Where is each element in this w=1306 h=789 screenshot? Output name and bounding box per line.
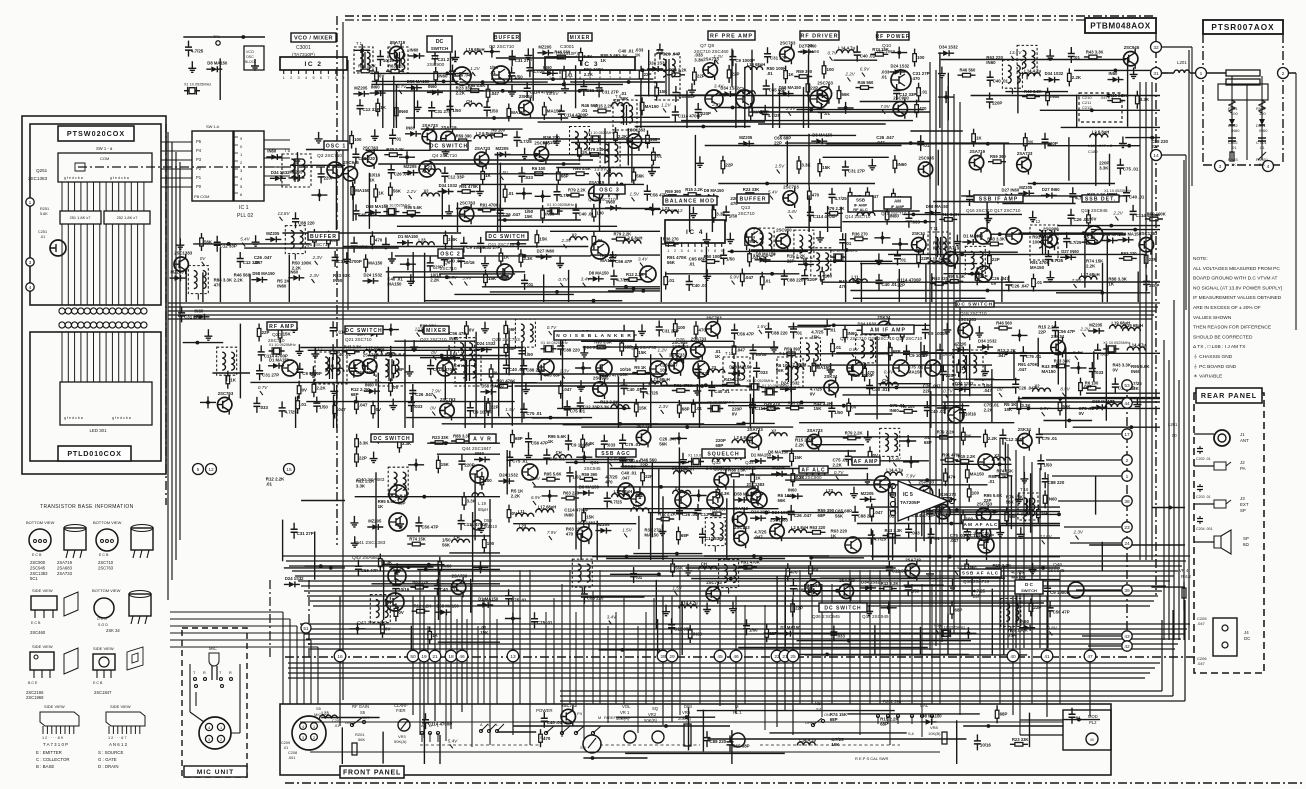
- svg-text:IC 3: IC 3: [581, 61, 599, 68]
- svg-text:2.2K: 2.2K: [833, 462, 843, 467]
- svg-text:22P: 22P: [262, 330, 270, 335]
- svg-text:1K: 1K: [976, 135, 982, 140]
- svg-text:50: 50: [410, 654, 416, 660]
- svg-text:1: 1: [1200, 71, 1203, 77]
- svg-text:.047: .047: [983, 388, 992, 393]
- svg-text:3: 3: [29, 260, 32, 266]
- svg-text:.01: .01: [923, 143, 930, 148]
- svg-text:1.5V: 1.5V: [499, 170, 509, 175]
- svg-text:3.3K: 3.3K: [585, 441, 595, 446]
- svg-text:100: 100: [1231, 111, 1238, 116]
- svg-text:4: 4: [302, 725, 304, 729]
- svg-text:C88 220: C88 220: [587, 596, 604, 601]
- svg-text:10/16: 10/16: [965, 411, 977, 416]
- svg-text:2SA719: 2SA719: [905, 557, 921, 562]
- svg-text:Q3 2SC710: Q3 2SC710: [317, 153, 342, 159]
- svg-text:470: 470: [790, 570, 798, 575]
- svg-text:1/50: 1/50: [834, 410, 843, 415]
- svg-text:220P: 220P: [1048, 141, 1058, 146]
- svg-text:R43 3.3K: R43 3.3K: [987, 236, 1005, 241]
- svg-text:8: 8: [619, 76, 621, 80]
- svg-text:X1 10.0525MHz: X1 10.0525MHz: [269, 343, 296, 347]
- svg-text:.047: .047: [254, 260, 263, 265]
- svg-text:C12 33P: C12 33P: [583, 405, 600, 410]
- svg-text:1K: 1K: [715, 354, 721, 359]
- svg-text:R63 220: R63 220: [932, 276, 949, 281]
- svg-text:0V: 0V: [1091, 216, 1096, 221]
- svg-text:C12 33P: C12 33P: [674, 626, 691, 631]
- svg-text:15K: 15K: [822, 165, 831, 170]
- svg-text:2SA733: 2SA733: [669, 352, 685, 357]
- svg-text:C31 27P: C31 27P: [770, 55, 787, 60]
- svg-text:470: 470: [948, 475, 956, 480]
- svg-text:22P: 22P: [644, 72, 652, 77]
- svg-text:D8 MA150: D8 MA150: [756, 251, 777, 256]
- svg-text:RF DRIVER: RF DRIVER: [800, 33, 838, 39]
- svg-text:44: 44: [1124, 401, 1130, 407]
- svg-text:L14 4.7μ: L14 4.7μ: [681, 600, 698, 605]
- svg-text:L19 68μH: L19 68μH: [466, 47, 485, 52]
- svg-text:C75 .01: C75 .01: [1123, 167, 1139, 172]
- svg-text:PTLD010COX: PTLD010COX: [67, 449, 121, 458]
- svg-text:2SK34: 2SK34: [1018, 427, 1032, 432]
- svg-text:22P: 22P: [769, 631, 777, 636]
- svg-text:1.5V: 1.5V: [672, 585, 682, 590]
- svg-text:D : DRAIN: D : DRAIN: [98, 764, 119, 769]
- svg-text:IN60: IN60: [1231, 128, 1240, 133]
- svg-text:.01: .01: [1259, 145, 1265, 150]
- svg-text:M: M: [735, 704, 739, 709]
- svg-text:Q2 2SC710: Q2 2SC710: [489, 44, 514, 50]
- svg-text:C31 27P: C31 27P: [297, 531, 314, 536]
- svg-text:220P: 220P: [992, 101, 1002, 106]
- svg-text:DC SWITCH: DC SWITCH: [430, 143, 468, 149]
- svg-text:2SC900: 2SC900: [893, 95, 909, 100]
- svg-text:.047: .047: [563, 387, 572, 392]
- svg-text:AM IF AMP: AM IF AMP: [870, 327, 906, 333]
- svg-text:SHOULD BE CORRECTED: SHOULD BE CORRECTED: [1193, 334, 1253, 340]
- svg-text:D24 1S32: D24 1S32: [285, 576, 304, 581]
- svg-text:1: 1: [283, 76, 285, 80]
- svg-text:IN60: IN60: [406, 125, 416, 130]
- svg-text:IN60: IN60: [365, 383, 375, 388]
- svg-text:T 2: T 2: [390, 41, 397, 46]
- svg-text:Q21 2SC710: Q21 2SC710: [345, 337, 372, 342]
- svg-text:C208: C208: [288, 751, 297, 755]
- svg-text:.01: .01: [527, 282, 534, 287]
- svg-text:2SC763: 2SC763: [780, 41, 796, 46]
- svg-text:IN60: IN60: [449, 336, 459, 341]
- svg-text:2SC1383: 2SC1383: [1139, 231, 1158, 236]
- svg-text:L23: L23: [1107, 399, 1115, 404]
- svg-text:L14 4.7μ: L14 4.7μ: [1129, 343, 1146, 348]
- svg-text:T 5: T 5: [657, 48, 664, 53]
- svg-text:C12 33P: C12 33P: [1005, 437, 1022, 442]
- svg-text:0V: 0V: [469, 328, 474, 333]
- svg-text:R63 220: R63 220: [788, 401, 805, 406]
- svg-text:.01: .01: [824, 111, 831, 116]
- svg-text:2SC900: 2SC900: [30, 560, 46, 565]
- svg-text:Q42 2SA683: Q42 2SA683: [352, 555, 380, 561]
- svg-text:22P: 22P: [359, 456, 367, 461]
- svg-text:3.3K: 3.3K: [1099, 166, 1109, 171]
- svg-text:10/16: 10/16: [398, 587, 410, 592]
- svg-text:R: R: [203, 671, 206, 675]
- svg-text:220P: 220P: [324, 175, 334, 180]
- svg-text:1/50: 1/50: [524, 352, 533, 357]
- svg-text:1/50: 1/50: [729, 214, 738, 219]
- svg-text:L: L: [437, 724, 439, 728]
- svg-text:Q16 2SC710 Q17 2SC710: Q16 2SC710 Q17 2SC710: [966, 208, 1021, 213]
- svg-text:2SC1969: 2SC1969: [26, 695, 44, 700]
- svg-text:1/50: 1/50: [514, 74, 523, 79]
- svg-text:OSC 1: OSC 1: [326, 143, 347, 149]
- svg-text:8.9V: 8.9V: [448, 275, 458, 280]
- svg-text:3.4V: 3.4V: [787, 209, 797, 214]
- svg-text:.01: .01: [689, 261, 696, 266]
- svg-text:2SA733: 2SA733: [452, 574, 468, 579]
- svg-text:RF ALC: RF ALC: [853, 207, 868, 212]
- svg-text:C31 27P: C31 27P: [438, 57, 455, 62]
- svg-text:C203 .01: C203 .01: [1196, 495, 1211, 499]
- svg-text:R12 2.2K: R12 2.2K: [414, 604, 432, 609]
- svg-text:2SC763: 2SC763: [783, 185, 799, 190]
- svg-text:100: 100: [354, 137, 362, 142]
- svg-text:2SC763: 2SC763: [706, 315, 722, 320]
- svg-text:100: 100: [825, 273, 833, 278]
- svg-text:g f e d c b a: g f e d c b a: [64, 176, 83, 180]
- svg-text:470: 470: [605, 479, 613, 484]
- svg-text:L14 4.7μ: L14 4.7μ: [838, 45, 855, 50]
- svg-text:C9 1000P: C9 1000P: [473, 409, 493, 414]
- svg-text:7.9V: 7.9V: [1072, 278, 1082, 283]
- svg-text:Q40 2SA683: Q40 2SA683: [357, 477, 385, 483]
- svg-text:PB COM: PB COM: [194, 194, 209, 199]
- svg-text:J4: J4: [1244, 630, 1249, 635]
- svg-text:.01: .01: [300, 402, 307, 407]
- svg-text:DC SWITCH: DC SWITCH: [957, 302, 993, 308]
- svg-text:.047: .047: [359, 403, 368, 408]
- svg-text:BUFFER: BUFFER: [494, 35, 520, 41]
- svg-text:4: 4: [1267, 164, 1270, 170]
- svg-text:R79 2.2K: R79 2.2K: [937, 430, 955, 435]
- svg-text:L201: L201: [1168, 422, 1178, 427]
- svg-text:56K: 56K: [393, 189, 402, 194]
- svg-text:.033: .033: [1095, 370, 1104, 375]
- svg-text:2SC763: 2SC763: [706, 580, 722, 585]
- svg-text:.01: .01: [696, 406, 703, 411]
- svg-text:VR6: VR6: [682, 710, 691, 715]
- svg-text:MZ205: MZ205: [596, 522, 610, 527]
- svg-text:5C1: 5C1: [30, 576, 38, 581]
- svg-text:4.7/25: 4.7/25: [610, 500, 623, 505]
- svg-text:2SA733: 2SA733: [747, 427, 763, 432]
- svg-text:2SC1383: 2SC1383: [577, 521, 596, 526]
- svg-text:C65 68P: C65 68P: [544, 373, 561, 378]
- svg-text:0V: 0V: [431, 350, 438, 355]
- svg-text:SQ: SQ: [652, 706, 659, 711]
- svg-text:6.9V: 6.9V: [530, 476, 540, 481]
- svg-text:.047x 3: .047x 3: [1100, 95, 1114, 100]
- svg-text:1 2 · · · 6 7: 1 2 · · · 6 7: [108, 736, 127, 740]
- svg-text:2SA733: 2SA733: [422, 123, 438, 128]
- svg-text:68P: 68P: [396, 367, 404, 372]
- svg-text:22P: 22P: [897, 282, 905, 287]
- svg-text:L2 6.8μH: L2 6.8μH: [1092, 130, 1109, 135]
- svg-text:2.2K: 2.2K: [988, 436, 998, 441]
- svg-text:DC SWITCH: DC SWITCH: [488, 234, 525, 240]
- svg-text:R23 33K: R23 33K: [1054, 358, 1071, 363]
- svg-text:.047: .047: [997, 353, 1006, 358]
- svg-text:R36 270: R36 270: [852, 231, 869, 236]
- svg-text:25: 25: [790, 654, 796, 660]
- svg-text:46: 46: [459, 654, 465, 660]
- svg-text:M: M: [598, 715, 601, 720]
- svg-text:.01: .01: [988, 479, 995, 484]
- svg-text:19: 19: [421, 654, 427, 660]
- svg-text:.033: .033: [911, 531, 920, 536]
- svg-text:PL2: PL2: [1089, 720, 1097, 725]
- svg-text:R36 270: R36 270: [940, 492, 957, 497]
- svg-text:S4.: S4.: [816, 707, 822, 712]
- svg-text:0V: 0V: [302, 387, 307, 392]
- svg-text:MZ205: MZ205: [266, 231, 280, 236]
- svg-text:56K: 56K: [835, 513, 844, 518]
- svg-text:C26 .047: C26 .047: [1011, 284, 1029, 289]
- svg-text:ALL VOLTAGES MEASURED FROM PC: ALL VOLTAGES MEASURED FROM PC: [1193, 266, 1280, 272]
- svg-text:56K: 56K: [1006, 499, 1015, 504]
- svg-text:PTSW020COX: PTSW020COX: [67, 129, 125, 138]
- svg-text:2.3V: 2.3V: [1073, 530, 1084, 535]
- svg-text:2SC945: 2SC945: [30, 565, 46, 570]
- svg-text:2SC1383: 2SC1383: [174, 251, 193, 256]
- svg-text:2SA719: 2SA719: [733, 506, 749, 511]
- svg-text:28: 28: [660, 654, 666, 660]
- svg-text:X1 10.0525MHz: X1 10.0525MHz: [938, 625, 965, 629]
- svg-text:DC SWITCH: DC SWITCH: [345, 328, 382, 334]
- svg-text:1K: 1K: [1108, 282, 1114, 287]
- svg-text:C75 .01: C75 .01: [1026, 354, 1042, 359]
- svg-text:68P: 68P: [1009, 514, 1017, 519]
- svg-text:X2: X2: [572, 232, 578, 237]
- svg-text:IN60: IN60: [442, 563, 452, 568]
- svg-text:R79 2.2K: R79 2.2K: [386, 147, 404, 152]
- svg-text:S 1: S 1: [540, 736, 546, 740]
- svg-text:IN60: IN60: [333, 278, 343, 283]
- svg-text:L23: L23: [519, 523, 527, 528]
- svg-text:R79 2.2K: R79 2.2K: [669, 67, 687, 72]
- svg-text:Q32: Q32: [678, 460, 687, 465]
- svg-text:22P: 22P: [645, 474, 653, 479]
- svg-text:C26 .047: C26 .047: [682, 512, 700, 517]
- svg-text:MZ205: MZ205: [538, 44, 552, 49]
- svg-text:6.9V: 6.9V: [1040, 406, 1050, 411]
- svg-text:2SC1383: 2SC1383: [770, 518, 789, 523]
- svg-text:X1 10.0525MHz: X1 10.0525MHz: [707, 401, 734, 405]
- svg-text:15K: 15K: [659, 89, 668, 94]
- svg-text:Q41 2SC1383: Q41 2SC1383: [355, 540, 386, 546]
- svg-text:68P: 68P: [351, 392, 359, 397]
- svg-text:100: 100: [660, 368, 668, 373]
- svg-text:.047: .047: [1197, 621, 1206, 626]
- svg-text:C88 220: C88 220: [298, 220, 315, 225]
- svg-text:L181 .047 x 2: L181 .047 x 2: [1088, 143, 1113, 148]
- svg-text:C207: C207: [332, 719, 341, 723]
- svg-text:4.7/25: 4.7/25: [874, 537, 887, 542]
- svg-text:.047: .047: [745, 275, 754, 280]
- svg-text:R6 100: R6 100: [491, 128, 505, 133]
- svg-text:0V: 0V: [385, 626, 390, 631]
- svg-text:0V: 0V: [398, 610, 403, 615]
- svg-text:MIC: MIC: [209, 646, 217, 651]
- svg-text:470: 470: [839, 284, 847, 289]
- svg-text:2.2K: 2.2K: [1086, 264, 1096, 269]
- svg-text:VALUES SHOWN: VALUES SHOWN: [1193, 315, 1232, 321]
- svg-text:C40 .01: C40 .01: [872, 387, 888, 392]
- svg-text:2: 2: [290, 76, 292, 80]
- svg-text:2SC1383: 2SC1383: [747, 482, 766, 487]
- svg-text:C40 .01: C40 .01: [336, 352, 352, 357]
- svg-text:Q27 2SC710 Q28 2SC710: Q27 2SC710 Q28 2SC710 Q29 2SC710: [840, 336, 923, 341]
- svg-text:IN60: IN60: [986, 60, 996, 65]
- svg-text:MZ205: MZ205: [496, 146, 510, 151]
- svg-text:R46 560: R46 560: [858, 80, 875, 85]
- svg-text:L14 4.7μ: L14 4.7μ: [799, 738, 816, 743]
- svg-text:Q23 2SC763: Q23 2SC763: [492, 337, 520, 343]
- svg-text:IN60: IN60: [933, 245, 943, 250]
- svg-text:.01: .01: [796, 331, 803, 336]
- svg-text:C9 1000P: C9 1000P: [928, 331, 948, 336]
- svg-text:2SC945: 2SC945: [584, 466, 601, 471]
- svg-text:470: 470: [375, 238, 383, 243]
- svg-text:S5: S5: [316, 706, 322, 711]
- svg-text:2SC763: 2SC763: [734, 525, 750, 530]
- svg-text:.033: .033: [524, 175, 533, 180]
- svg-text:MA150: MA150: [645, 104, 660, 109]
- svg-text:3.3K: 3.3K: [600, 405, 610, 410]
- svg-text:Q44 2SC1847: Q44 2SC1847: [462, 446, 492, 451]
- svg-text:2.2K: 2.2K: [984, 407, 994, 412]
- svg-text:D1 MA150: D1 MA150: [398, 234, 419, 239]
- svg-text:R: R: [229, 671, 232, 675]
- svg-text:D34 1S32: D34 1S32: [720, 86, 739, 91]
- svg-text:68P: 68P: [681, 533, 689, 538]
- svg-text:COM: COM: [100, 156, 109, 161]
- svg-text:6: 6: [701, 249, 703, 253]
- svg-text:10/16: 10/16: [980, 742, 992, 747]
- svg-text:1.2V: 1.2V: [661, 102, 671, 107]
- svg-text:2.2K: 2.2K: [1072, 75, 1082, 80]
- svg-text:IN60: IN60: [289, 269, 299, 274]
- svg-text:T 8: T 8: [615, 94, 622, 99]
- svg-text:.047: .047: [621, 475, 630, 480]
- svg-text:2SC763: 2SC763: [363, 145, 379, 150]
- svg-text:.047: .047: [337, 407, 346, 412]
- svg-text:2SA719: 2SA719: [970, 149, 986, 154]
- svg-text:22P: 22P: [795, 605, 803, 610]
- svg-text:D1 MA150: D1 MA150: [478, 596, 499, 601]
- svg-text:1.2V: 1.2V: [658, 348, 668, 353]
- svg-text:SIDE VIEW: SIDE VIEW: [44, 704, 65, 709]
- svg-text:P4: P4: [196, 148, 202, 153]
- svg-text:7: 7: [609, 76, 611, 80]
- svg-text:2: 2: [674, 249, 676, 253]
- svg-text:R E.P S CAL SWR: R E.P S CAL SWR: [855, 756, 888, 761]
- svg-text:MA150: MA150: [908, 369, 923, 374]
- svg-text:L19 68μH: L19 68μH: [747, 62, 766, 67]
- svg-text:8Ω: 8Ω: [1243, 542, 1249, 547]
- svg-text:24: 24: [1124, 541, 1130, 547]
- svg-text:39: 39: [1124, 588, 1130, 594]
- svg-text:L: L: [496, 723, 498, 727]
- svg-text:CH: CH: [633, 504, 639, 509]
- svg-text:R46 560: R46 560: [710, 506, 727, 511]
- svg-text:56K: 56K: [842, 92, 851, 97]
- svg-text:C56 47P: C56 47P: [531, 440, 548, 445]
- svg-text:2 SC945: 2 SC945: [706, 466, 724, 471]
- svg-text:D58 MA150: D58 MA150: [779, 85, 802, 90]
- svg-text:1K: 1K: [966, 434, 972, 439]
- svg-text:7.9V: 7.9V: [547, 530, 557, 535]
- svg-text:C3001: C3001: [296, 45, 311, 51]
- svg-text:13.8V: 13.8V: [1009, 50, 1022, 55]
- svg-text:D8 MA150: D8 MA150: [704, 188, 725, 193]
- svg-text:C114 4700P: C114 4700P: [678, 114, 702, 119]
- svg-text:IF MEASUREMENT VALUES OBTAIN: IF MEASUREMENT VALUES OBTAINED: [1193, 295, 1282, 301]
- svg-text:56K: 56K: [667, 260, 676, 265]
- svg-text:D34 1S32: D34 1S32: [978, 339, 997, 344]
- svg-text:220P: 220P: [946, 373, 956, 378]
- svg-text:SWITCH: SWITCH: [431, 46, 448, 51]
- svg-text:3: 3: [208, 738, 210, 742]
- svg-text:C40 .01: C40 .01: [860, 54, 876, 59]
- svg-text:5.4V: 5.4V: [240, 237, 250, 242]
- svg-text:9: 9: [721, 249, 723, 253]
- svg-text:0.8V: 0.8V: [1047, 625, 1057, 630]
- svg-text:IN60: IN60: [890, 408, 900, 413]
- svg-text:C75 .01: C75 .01: [537, 620, 553, 625]
- svg-text:.01: .01: [1036, 280, 1043, 285]
- svg-text:2SC763: 2SC763: [460, 201, 476, 206]
- svg-text:3: 3: [569, 76, 571, 80]
- svg-text:C40 .01: C40 .01: [627, 387, 643, 392]
- svg-text:R95 5.6K: R95 5.6K: [947, 274, 965, 279]
- svg-text:C40 .01: C40 .01: [509, 367, 525, 372]
- svg-text:100: 100: [484, 478, 492, 483]
- svg-text:Q36 2:SC945: Q36 2:SC945: [812, 614, 840, 619]
- svg-text:AM: AM: [894, 199, 901, 204]
- svg-text:X1 10.0525MHz: X1 10.0525MHz: [1104, 189, 1131, 193]
- svg-text:U: U: [488, 723, 491, 727]
- svg-text:ON: ON: [824, 713, 830, 717]
- svg-text:4.7/25: 4.7/25: [191, 49, 204, 54]
- svg-text:D34 1S32: D34 1S32: [804, 583, 823, 588]
- svg-text:X2: X2: [424, 189, 430, 194]
- svg-text:MA150: MA150: [1042, 369, 1057, 374]
- svg-text:L11: L11: [852, 275, 860, 280]
- svg-text:L17 68μH: L17 68μH: [538, 505, 557, 510]
- svg-text:ARE IN EXCESS OF ± 20% OF: ARE IN EXCESS OF ± 20% OF: [1193, 305, 1261, 311]
- svg-text:.033: .033: [911, 220, 920, 225]
- svg-text:＊ VARIABLE: ＊ VARIABLE: [1193, 374, 1222, 380]
- svg-text:OFF: OFF: [363, 716, 371, 720]
- svg-text:0V: 0V: [512, 511, 517, 516]
- svg-text:D24 1S32: D24 1S32: [751, 510, 770, 515]
- svg-text:2.2V: 2.2V: [1079, 327, 1090, 332]
- svg-text:R46 560: R46 560: [996, 321, 1013, 326]
- svg-text:VCO / MIXER: VCO / MIXER: [294, 36, 333, 42]
- svg-text:Q18 2SC710: Q18 2SC710: [960, 311, 987, 316]
